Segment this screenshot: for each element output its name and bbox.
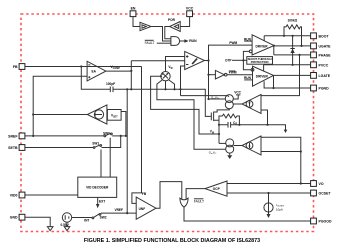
wire inverter input tap (207, 74, 215, 76)
driver upper (UGATE) (252, 35, 274, 55)
wire comparator output node (205, 59, 210, 61)
svg-text:OCP: OCP (213, 187, 221, 191)
svg-text:VREF: VREF (115, 208, 124, 212)
capacitor Cr (218, 120, 286, 143)
svg-text:VID DECODER: VID DECODER (86, 186, 109, 190)
wire summer top to PWM comparator (Vw node) (166, 57, 185, 72)
wire BOOT line (264, 35, 311, 37)
node FAULT net label (194, 199, 204, 204)
svg-text:SW1: SW1 (92, 141, 99, 145)
wire SETB line (25, 147, 94, 149)
pin VID0 (10, 192, 25, 198)
pin GND (10, 214, 25, 220)
wire SREF line (25, 135, 105, 137)
wire summer left route to Vw ramp node (151, 75, 220, 135)
resistor 100k (284, 18, 302, 46)
svg-text:PGND: PGND (319, 87, 330, 91)
svg-text:EXT: EXT (99, 200, 105, 204)
wire VID0 pin to decoder (25, 194, 78, 196)
wire FB rail down to UNF input (132, 67, 142, 204)
svg-text:PVCC: PVCC (319, 63, 329, 67)
node GmVin label (211, 96, 219, 101)
wire PVCC line (264, 64, 311, 66)
wire BOOT supply into upper driver (263, 36, 265, 41)
power VCC tee (233, 90, 241, 99)
gm amplifier G1 (reference buffer) (87, 105, 107, 124)
wire summer left leg to GmVo source (157, 80, 226, 149)
pin VO (311, 181, 324, 187)
node Vw label (210, 130, 215, 135)
gm amplifier G2 (GmVin control) (242, 95, 261, 114)
wire comparator lower input riser (179, 66, 184, 96)
switch SW0 (103, 131, 126, 137)
pin UGATE (311, 43, 332, 49)
wire COMP vertical rail (130, 61, 132, 91)
IC boundary dashed border (21, 14, 314, 232)
error amplifier EA (87, 61, 106, 81)
wire line B to GmVin source top (181, 96, 230, 97)
svg-text:OCSET: OCSET (319, 192, 332, 196)
wire OR output to PGOOD (184, 207, 311, 221)
svg-text:RUN: RUN (189, 39, 197, 43)
pin FB (13, 64, 25, 70)
or-gate U4 (180, 198, 188, 207)
svg-text:VID0: VID0 (10, 194, 18, 198)
pin PVCC (311, 62, 329, 68)
wire PVCC supply into lower driver (263, 65, 265, 72)
svg-text:SW2: SW2 (100, 215, 107, 219)
node FAULT input (145, 40, 171, 45)
pin EN (130, 6, 136, 16)
svg-text:PROTECTION: PROTECTION (251, 60, 269, 64)
ground for I2 (227, 153, 232, 159)
svg-text:FAULT: FAULT (194, 200, 204, 204)
caption (84, 238, 260, 244)
inverter U3 (215, 70, 227, 79)
current source I2 (GmVo) (219, 139, 234, 153)
pin PGND (311, 85, 329, 91)
block VID DECODER (78, 177, 117, 197)
wire VREF vertical rail (126, 88, 128, 214)
wire PHASE line (274, 54, 311, 56)
transistor Q1 (211, 112, 219, 122)
wire COMP to PWM comparator middle input (131, 60, 184, 62)
pin PGOOD (311, 218, 332, 224)
svg-text:SETB: SETB (8, 146, 18, 150)
pin OCSET (311, 190, 332, 196)
comparator OCP (205, 181, 227, 196)
node VREF wire (101, 208, 136, 213)
svg-text:10µA: 10µA (276, 207, 283, 211)
wire VCC pin to POR (180, 16, 189, 26)
wire UNF output up to fault logic (156, 182, 182, 209)
svg-text:FAULT: FAULT (145, 41, 155, 45)
node VCOMP wire (106, 65, 132, 72)
current source I1 (GmVin) (225, 95, 233, 109)
wire G2 upper input from PHASE (261, 55, 300, 96)
driver lower (LGATE) (253, 66, 274, 86)
svg-text:UNF: UNF (139, 207, 146, 211)
svg-text:FB: FB (142, 192, 147, 196)
wire FB pin to EA and to FB rail (25, 65, 142, 67)
wire OCSET line (227, 192, 311, 194)
switch SW2 internal reference (72, 214, 107, 223)
block shoot-through protection (247, 57, 273, 65)
wire G3 output to I2 (234, 145, 242, 147)
svg-text:VO: VO (319, 182, 324, 186)
wire modulator line A (comp to fet gate) (131, 89, 211, 116)
node EXT control arrow (96, 197, 105, 208)
wire UGATE line (274, 45, 311, 47)
wire line C comparator to GmVin source (207, 98, 225, 100)
wire POR output to AND gate (165, 27, 171, 39)
svg-text:100pF: 100pF (106, 82, 115, 86)
svg-text:INT: INT (84, 218, 89, 222)
gm amplifier G3 (GmVo control) (242, 136, 261, 155)
buffer UNF (136, 197, 156, 219)
svg-text:BOOT: BOOT (319, 34, 330, 38)
svg-text:VCC: VCC (234, 90, 241, 94)
wire G3 inputs from VO rail (261, 137, 302, 184)
svg-text:EN: EN (131, 6, 136, 10)
capacitor 100pF (81, 67, 131, 93)
wire switch controls to VID decoder (101, 138, 110, 177)
wire G2 output to I1 (233, 103, 242, 105)
ground for source (64, 222, 70, 230)
wire OCP output to OR gate (186, 189, 205, 199)
svg-text:EA: EA (92, 70, 97, 74)
buffer U1 (EN) (140, 22, 151, 30)
pin PHASE (311, 52, 332, 58)
svg-text:VCC: VCC (186, 6, 194, 10)
wire G2 lower input to ramp node (261, 110, 268, 125)
switch SW1 (92, 136, 120, 149)
ground for GND pin (47, 227, 53, 231)
wire buffer output to AND gate (151, 27, 171, 42)
pin VCC (186, 6, 194, 16)
svg-text:UGATE: UGATE (319, 44, 332, 48)
block VSET (107, 110, 121, 121)
wire G1 output to EA riser (32, 113, 87, 115)
svg-text:DRIVER: DRIVER (256, 74, 269, 78)
wire summer bottom stub (164, 81, 166, 91)
svg-text:SREF: SREF (8, 134, 18, 138)
node RUN output arrow (180, 39, 197, 43)
wire VO line (227, 183, 311, 185)
comparator POR (168, 18, 180, 32)
comparator PWM (185, 51, 205, 69)
svg-text:OTP: OTP (225, 59, 232, 63)
pin LGATE (311, 73, 331, 79)
wire summer right leg to modulator line (169, 80, 176, 91)
voltage source 0.55V (61, 213, 72, 227)
node OTP stub (225, 59, 247, 63)
pin SETB (8, 145, 25, 151)
diode bootstrap (290, 36, 294, 65)
wire PWM net to upper driver (209, 41, 253, 99)
node FB label stub (142, 192, 147, 196)
wire driver disable bubbles rail (242, 50, 254, 71)
wire VSET to reference select (121, 112, 127, 137)
node phase arrow (284, 130, 288, 133)
wire LGATE line (274, 74, 311, 76)
summer circle S1 (161, 72, 170, 81)
resistor R1 ramp (219, 114, 239, 125)
pin SREF (8, 133, 25, 139)
wire EN pin to buffer (133, 17, 140, 27)
svg-text:PGOOD: PGOOD (319, 220, 333, 224)
pin BOOT (311, 33, 330, 39)
svg-text:POR: POR (168, 18, 176, 22)
svg-text:GND: GND (10, 216, 18, 220)
svg-text:FB: FB (13, 65, 18, 69)
svg-text:FIGURE 1. SIMPLIFIED FUNCTION: FIGURE 1. SIMPLIFIED FUNCTIONAL BLOCK DI… (84, 238, 260, 244)
wire I1 to fet drain (214, 109, 230, 112)
wire PWM-bar to lower driver (227, 71, 253, 75)
node GmVo label (209, 151, 217, 156)
svg-text:PHASE: PHASE (319, 53, 332, 57)
wire LGATE to PGND return (272, 75, 274, 89)
svg-text:100kΩ: 100kΩ (288, 18, 298, 22)
svg-text:LGATE: LGATE (319, 74, 331, 78)
wire UGATE to PHASE return (273, 45, 275, 55)
node RUN stub upper (244, 37, 252, 41)
svg-text:PWM: PWM (229, 41, 237, 45)
wire PGND line (264, 81, 311, 88)
wire GND pin to ground (25, 217, 51, 226)
current source IOCSET (264, 193, 285, 218)
node RUN stub lower (244, 76, 253, 80)
svg-text:DRIVER: DRIVER (256, 44, 269, 48)
and-gate U2 (171, 37, 180, 46)
wire EA lower input riser (32, 76, 87, 137)
